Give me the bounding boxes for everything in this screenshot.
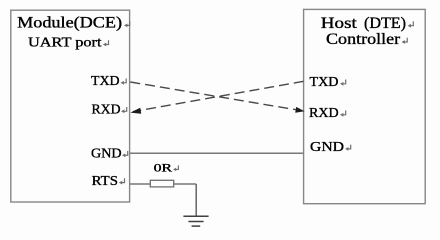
svg-text:Host: Host [321,15,358,32]
svg-text:(DTE): (DTE) [364,15,406,32]
svg-text:UART port: UART port [28,36,102,51]
svg-text:TXD: TXD [91,73,120,88]
svg-text:GND: GND [91,146,122,161]
svg-text:Controller: Controller [326,31,401,48]
svg-text:GND: GND [310,139,344,154]
svg-text:TXD: TXD [310,74,339,89]
svg-text:RTS: RTS [92,173,118,188]
svg-text:RXD: RXD [309,105,339,120]
svg-text:0R: 0R [154,160,172,174]
svg-text:RXD: RXD [92,102,121,117]
svg-text:Module(DCE): Module(DCE) [17,15,122,32]
